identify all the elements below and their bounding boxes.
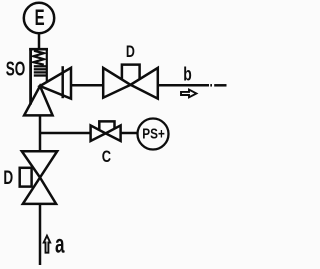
- svg-text:D: D: [126, 42, 135, 61]
- svg-text:D: D: [3, 167, 13, 189]
- svg-text:PS+: PS+: [142, 126, 165, 143]
- svg-text:a: a: [55, 229, 65, 259]
- svg-text:b: b: [183, 64, 192, 86]
- svg-text:E: E: [35, 5, 45, 30]
- svg-text:SO: SO: [6, 58, 26, 81]
- svg-text:C: C: [102, 147, 111, 166]
